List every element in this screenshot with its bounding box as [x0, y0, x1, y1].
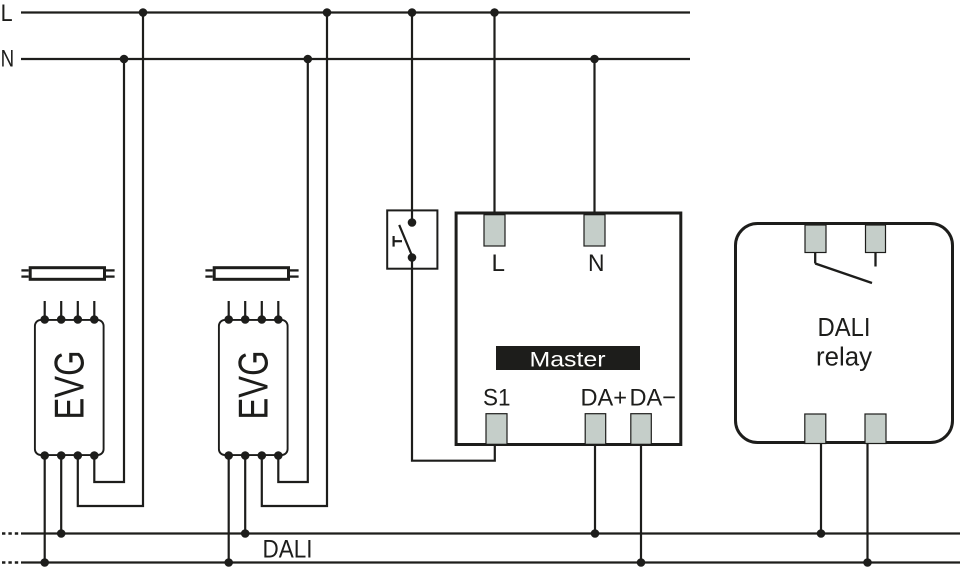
wire U1 DA pin1 to DALI line 2 [44, 456, 46, 563]
junction U3 DA- / DALI line 2 [637, 558, 646, 567]
svg-text:Master: Master [530, 349, 606, 372]
wire U1 pin3 to L bus [78, 13, 143, 507]
wire L bus to switch S1 [411, 13, 413, 223]
U2 pin stubs to lamp (pins 1-4 top) [229, 301, 279, 319]
U4 relay contact stub left [814, 253, 816, 264]
S1 lever [399, 225, 411, 255]
U1 bottom pin junction dots [40, 451, 98, 460]
lamp LA2 fluorescent tube [205, 268, 298, 280]
wire U4 left terminal to DALI line 1 [820, 444, 822, 534]
svg-text:DA−: DA− [630, 385, 677, 412]
U3 name plate [496, 346, 640, 370]
wire U1 pin4 to N bus [94, 59, 124, 482]
junction U4 / DALI line 1 [817, 529, 826, 538]
wire L bus to Master L terminal [493, 13, 495, 215]
junction U4 / DALI line 2 [863, 558, 872, 567]
junction U1 N wire / N bus [120, 55, 129, 64]
U4 relay contact lever [815, 264, 872, 284]
U4 terminal bottom-left [805, 414, 826, 444]
U3 terminal L [484, 215, 505, 246]
net L bus [21, 11, 690, 13]
junction Master L wire / L bus [490, 8, 499, 17]
svg-text:DA+: DA+ [581, 385, 628, 412]
S1 top contact dot [408, 218, 417, 227]
junction Master N wire / N bus [590, 55, 599, 64]
S1 bottom contact dot [408, 253, 417, 262]
svg-text:N: N [1, 45, 15, 72]
junction U2 pin1 / DALI line 2 [224, 558, 233, 567]
svg-text:N: N [588, 250, 605, 277]
U2 top pin junction dots [224, 315, 282, 324]
net N bus [21, 58, 690, 60]
junction U2 L wire / L bus [323, 8, 332, 17]
net DALI line 1 (DA+) dotted continuation left [2, 532, 20, 535]
pushbutton S1 box [387, 210, 437, 268]
wire U2 DA pin2 to DALI line 1 [244, 456, 246, 534]
wire U2 pin3 to L bus [262, 13, 327, 507]
svg-text:relay: relay [816, 344, 872, 372]
U3 terminal S1 [486, 414, 507, 445]
svg-text:EVG: EVG [46, 351, 93, 420]
U4 terminal top-left [805, 225, 826, 253]
junction U2 pin2 / DALI line 1 [241, 529, 250, 538]
ballast U2 EVG box [219, 320, 288, 455]
svg-text:EVG: EVG [230, 351, 277, 420]
U4 terminal bottom-right [865, 414, 886, 444]
svg-text:L: L [492, 250, 506, 277]
U3 terminal N [584, 215, 605, 246]
lamp LA1 fluorescent tube [21, 268, 114, 280]
wire N bus to Master N terminal [593, 59, 595, 215]
U3 terminal DA- [631, 414, 652, 445]
wire switch S1 to Master S1 terminal [412, 258, 495, 461]
ballast U1 EVG box [35, 320, 104, 455]
svg-text:DALI: DALI [263, 536, 313, 564]
junction U1 L wire / L bus [139, 8, 148, 17]
wire U2 DA pin1 to DALI line 2 [228, 456, 230, 563]
U3 terminal DA+ [585, 414, 606, 445]
wire U2 pin4 to N bus [278, 59, 308, 482]
junction U1 pin1 / DALI line 2 [40, 558, 49, 567]
wire U4 right terminal to DALI line 2 [866, 444, 868, 563]
wire U3 DA- to DALI line 2 [640, 444, 642, 563]
svg-text:DALI: DALI [818, 314, 871, 342]
U4 relay contact stub right [874, 253, 876, 267]
net DALI line 2 (DA-) [21, 561, 960, 563]
controller U3 Master box [456, 213, 681, 445]
svg-text:S1: S1 [483, 385, 511, 412]
svg-text:L: L [1, 0, 13, 27]
wire U1 DA pin2 to DALI line 1 [60, 456, 62, 534]
wire U3 DA+ to DALI line 1 [594, 444, 596, 534]
U1 pin stubs to lamp (pins 1-4 top) [45, 301, 95, 319]
junction switch wire / L bus [408, 8, 417, 17]
U4 terminal top-right [866, 225, 886, 253]
S1 actuator T-bar [394, 236, 402, 247]
net DALI line 2 (DA-) dotted continuation left [2, 561, 20, 564]
junction U1 pin2 / DALI line 1 [57, 529, 66, 538]
net DALI line 1 (DA+) [21, 532, 960, 534]
U2 bottom pin junction dots [224, 451, 282, 460]
actuator U4 DALI relay box [736, 224, 953, 443]
U1 top pin junction dots [40, 315, 98, 324]
junction U2 N wire / N bus [304, 55, 313, 64]
junction U3 DA+ / DALI line 1 [591, 529, 600, 538]
